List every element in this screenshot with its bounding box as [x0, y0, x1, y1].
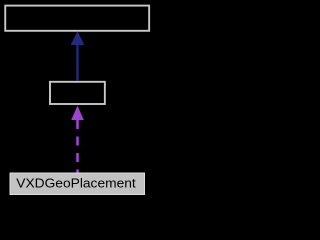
svg-text:VXDGeoPlacement: VXDGeoPlacement	[16, 177, 136, 191]
